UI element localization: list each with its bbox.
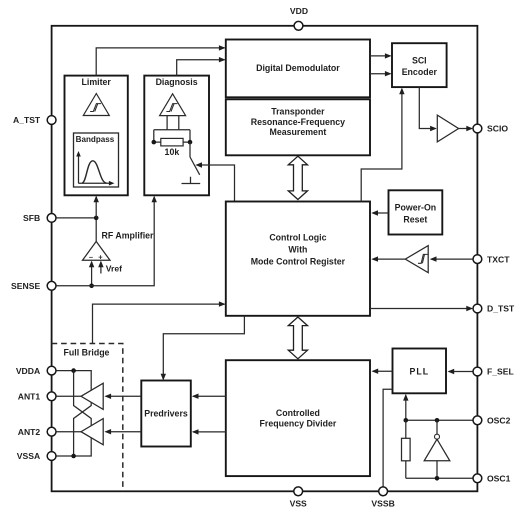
wire frequency divider to predrivers lower	[192, 429, 226, 434]
svg-text:PLL: PLL	[409, 367, 429, 377]
pin A_TST	[13, 115, 56, 125]
resistor oscillator	[402, 420, 411, 478]
chip outer border	[52, 26, 478, 492]
wire control logic to predrivers	[161, 316, 245, 381]
wire schmitt buffer to control logic	[371, 256, 405, 261]
wire oscillator node to PLL	[403, 394, 408, 420]
buffer U2 to SCIO	[437, 115, 473, 142]
svg-text:Transponder: Transponder	[271, 107, 325, 117]
diagnosis bus wiring from amplifier to resistor	[154, 116, 190, 143]
svg-text:Diagnosis: Diagnosis	[156, 77, 198, 87]
svg-text:SENSE: SENSE	[11, 281, 40, 291]
svg-text:With: With	[288, 244, 307, 254]
wire predrivers to driver 1	[104, 394, 141, 399]
pin SCIO	[473, 124, 508, 134]
svg-text:Digital Demodulator: Digital Demodulator	[256, 63, 340, 73]
wire OSC2 rail	[406, 419, 473, 421]
pin F_SEL	[473, 367, 514, 377]
driver amplifier 1	[81, 383, 103, 409]
svg-text:Full Bridge: Full Bridge	[64, 348, 110, 358]
block PLL	[393, 349, 447, 394]
pin VSSA	[17, 451, 56, 461]
wire predrivers to driver 2	[104, 429, 141, 434]
svg-text:D_TST: D_TST	[487, 304, 515, 314]
inverter oscillator	[424, 420, 450, 478]
wire full bridge sense to control logic	[93, 301, 226, 343]
bandpass filter box	[74, 133, 119, 187]
ground	[182, 177, 201, 184]
wire OSC1 rail	[406, 477, 473, 479]
block Predrivers	[141, 381, 191, 447]
svg-text:SCI: SCI	[412, 55, 427, 65]
wire control logic to SCI encoder	[361, 88, 404, 202]
svg-text:Encoder: Encoder	[402, 67, 438, 77]
node OSC2/inverter	[435, 418, 440, 423]
svg-text:Mode Control Register: Mode Control Register	[251, 257, 346, 267]
wire frequency divider to predrivers upper	[192, 394, 226, 399]
wire VDDA rail into bridge	[56, 371, 91, 391]
svg-text:Limiter: Limiter	[82, 77, 112, 87]
svg-text:SCIO: SCIO	[487, 124, 508, 134]
Vref arrow into RF amplifier	[98, 261, 122, 274]
svg-text:ANT1: ANT1	[18, 392, 41, 402]
wire diagnosis output to demodulator	[177, 57, 226, 76]
svg-text:–: –	[89, 252, 93, 261]
pin OSC2	[473, 416, 511, 426]
limiter schmitt amplifier symbol	[83, 94, 109, 116]
wire RF amplifier output to limiter	[94, 196, 99, 218]
wire ANT2 to driver 2	[56, 431, 81, 433]
svg-text:Controlled: Controlled	[276, 408, 320, 418]
block Controlled Frequency Divider	[226, 360, 370, 476]
svg-text:Reset: Reset	[403, 214, 427, 224]
svg-text:OSC1: OSC1	[487, 474, 511, 484]
block Digital Demodulator	[226, 40, 370, 98]
pin VSSB	[371, 487, 394, 508]
node resistor left	[152, 140, 157, 145]
wire TXCT to schmitt buffer	[430, 256, 473, 261]
svg-text:VDDA: VDDA	[16, 366, 40, 376]
svg-text:VDD: VDD	[290, 6, 308, 16]
wire SFB to RF amplifier output	[56, 217, 96, 219]
pin SENSE	[11, 281, 56, 291]
svg-text:Power-On: Power-On	[395, 202, 437, 212]
wire VSSA cross rail from driver 1	[74, 403, 92, 457]
pin SFB	[23, 213, 56, 223]
wire demodulator to SCI encoder lower	[370, 71, 392, 76]
svg-text:VSS: VSS	[290, 498, 307, 508]
pin OSC1	[473, 474, 511, 484]
pin VDDA	[16, 366, 56, 376]
wire demodulator to SCI encoder upper	[370, 53, 392, 58]
pin TXCT	[473, 254, 510, 264]
op-amp RF Amplifier	[83, 220, 155, 262]
wire SENSE to RF amplifier input	[89, 261, 94, 286]
svg-text:Frequency Divider: Frequency Divider	[260, 419, 337, 429]
wire VSSA rail into bridge	[56, 438, 91, 456]
bus arrow control logic/frequency divider	[288, 317, 307, 359]
wire F_SEL to PLL	[448, 369, 474, 374]
svg-text:Resonance-Frequency: Resonance-Frequency	[251, 117, 345, 127]
pin VSS	[290, 487, 307, 508]
svg-text:TXCT: TXCT	[487, 254, 510, 264]
block Limiter	[65, 76, 128, 196]
schmitt trigger U3 on TXCT	[405, 246, 428, 273]
wire VDDA cross rail to driver 2	[74, 371, 92, 426]
node SENSE junction	[89, 284, 94, 289]
node VDDA junction	[71, 368, 76, 373]
block Transponder Resonance-Frequency Measurement	[226, 99, 370, 155]
wire PLL to frequency divider	[372, 369, 393, 374]
svg-text:VSSB: VSSB	[371, 498, 394, 508]
svg-text:10k: 10k	[165, 147, 180, 157]
svg-text:OSC2: OSC2	[487, 416, 511, 426]
pin VDD	[290, 6, 308, 30]
wire ANT1 to driver 1	[56, 395, 81, 397]
svg-text:+: +	[98, 253, 103, 262]
svg-text:SFB: SFB	[23, 213, 40, 223]
svg-text:Control Logic: Control Logic	[269, 232, 326, 242]
pin D_TST	[473, 304, 515, 314]
bus arrow demodulator/control logic	[288, 156, 307, 199]
node SFB junction	[94, 216, 99, 221]
wire limiter output to demodulator	[96, 45, 225, 75]
pin ANT1	[18, 392, 56, 402]
svg-text:RF Amplifier: RF Amplifier	[102, 231, 155, 241]
resistor 10k	[154, 138, 190, 157]
wire PLL to VSSB	[383, 389, 392, 487]
wire power-on reset to control logic	[371, 210, 388, 215]
node OSC1/inverter	[435, 476, 440, 481]
wire control logic to D_TST	[370, 306, 473, 311]
node resistor right	[188, 140, 193, 145]
wire SCI encoder to output buffer	[419, 87, 437, 131]
svg-text:Bandpass: Bandpass	[76, 135, 115, 144]
block Control Logic With Mode Control Register	[226, 202, 370, 316]
Full Bridge dashed boundary	[52, 344, 123, 492]
svg-text:Measurement: Measurement	[270, 127, 327, 137]
svg-text:A_TST: A_TST	[13, 115, 41, 125]
pin ANT2	[18, 427, 56, 437]
svg-text:Predrivers: Predrivers	[144, 409, 188, 419]
block Diagnosis	[144, 76, 209, 196]
svg-text:F_SEL: F_SEL	[487, 367, 514, 377]
wire SENSE to diagnosis	[56, 196, 157, 286]
node VSSA junction	[71, 454, 76, 459]
node OSC2/PLL	[404, 418, 409, 423]
diagnosis switch	[190, 142, 200, 175]
block SCI Encoder	[392, 43, 447, 87]
wire switch control from control logic	[195, 162, 234, 201]
driver amplifier 2	[81, 419, 103, 445]
svg-text:Vref: Vref	[106, 264, 122, 274]
block Power-On Reset	[389, 190, 443, 234]
svg-text:VSSA: VSSA	[17, 451, 40, 461]
diagnosis schmitt amplifier symbol	[160, 94, 186, 116]
svg-text:ANT2: ANT2	[18, 427, 41, 437]
